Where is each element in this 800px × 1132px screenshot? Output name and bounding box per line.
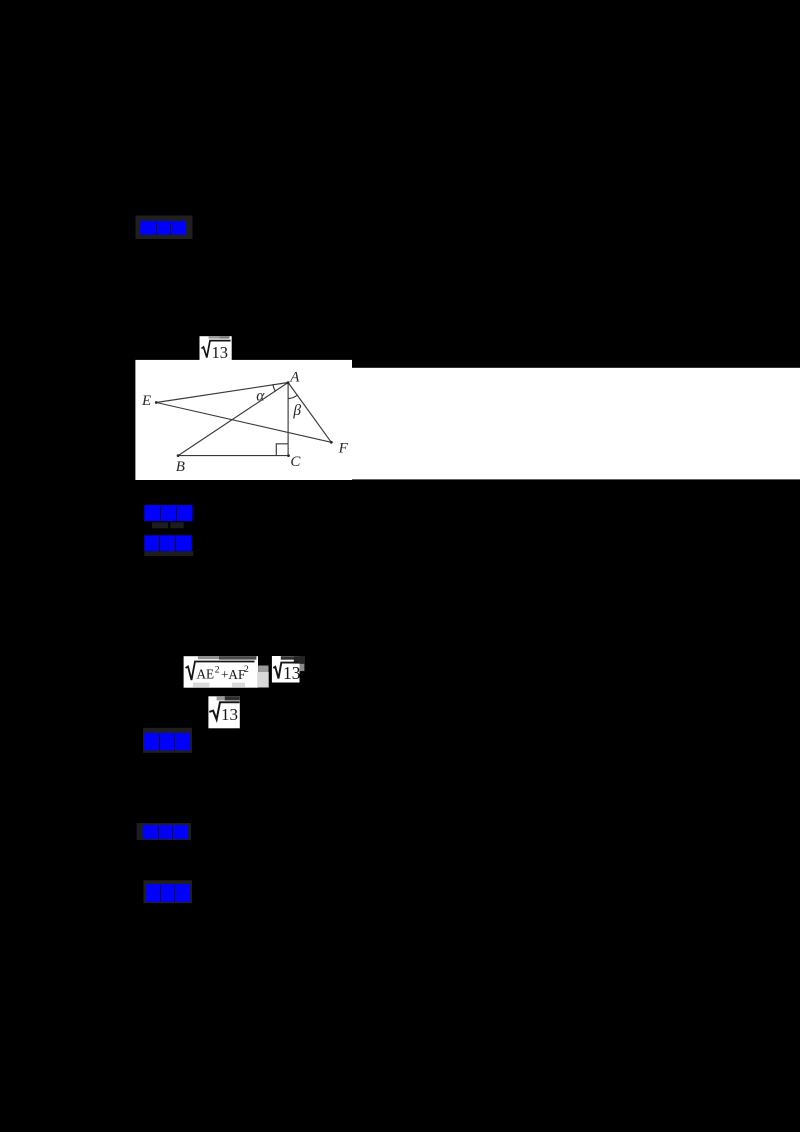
wire A-F (288, 383, 331, 443)
wire B-A (178, 383, 288, 456)
svg-text:α: α (256, 387, 265, 404)
svg-text:E: E (141, 393, 151, 409)
svg-text:13: 13 (221, 705, 238, 724)
formula sqrt(13) lower patch (208, 696, 239, 728)
blue label L4 halo (143, 728, 192, 753)
node F (330, 441, 333, 444)
right angle mark at C (276, 444, 288, 456)
blue label L1 (140, 221, 186, 235)
angle alpha arc (273, 384, 276, 391)
wire B-C (178, 455, 288, 457)
angle beta arc (288, 395, 297, 398)
formula sqrt(13) top patch (200, 336, 232, 362)
figure panel white box (135, 360, 352, 480)
blue label L5 halo (137, 823, 191, 840)
svg-text:β: β (292, 402, 301, 419)
formula sqrt(AE^2+AF^2) patch (184, 656, 269, 688)
wire A-C (287, 383, 289, 456)
wire E-F (156, 403, 331, 443)
blue label L6 halo (144, 880, 192, 903)
node A (287, 381, 290, 384)
blue label L1 halo (136, 216, 193, 240)
wire E-A (156, 383, 288, 403)
blue label L5 (143, 825, 188, 839)
blue label L6 (146, 884, 190, 902)
node E (155, 401, 158, 404)
node B (177, 454, 180, 457)
svg-text:13: 13 (283, 663, 301, 683)
svg-text:13: 13 (212, 343, 229, 362)
blue label L2 (144, 505, 192, 528)
node C (287, 454, 290, 457)
svg-text:F: F (338, 441, 349, 457)
svg-text:AE: AE (197, 667, 215, 682)
svg-text:B: B (176, 459, 185, 475)
svg-text:C: C (290, 454, 301, 470)
blue label L4 (144, 733, 190, 750)
formula = sqrt(13) right part (272, 656, 305, 683)
geometry figure (156, 383, 331, 456)
blue label L3 (144, 535, 193, 556)
svg-text:+AF: +AF (221, 667, 245, 682)
svg-text:2: 2 (244, 665, 249, 675)
wide white band (revealed strip) (352, 368, 800, 480)
svg-text:2: 2 (215, 666, 220, 676)
svg-text:A: A (289, 369, 300, 385)
